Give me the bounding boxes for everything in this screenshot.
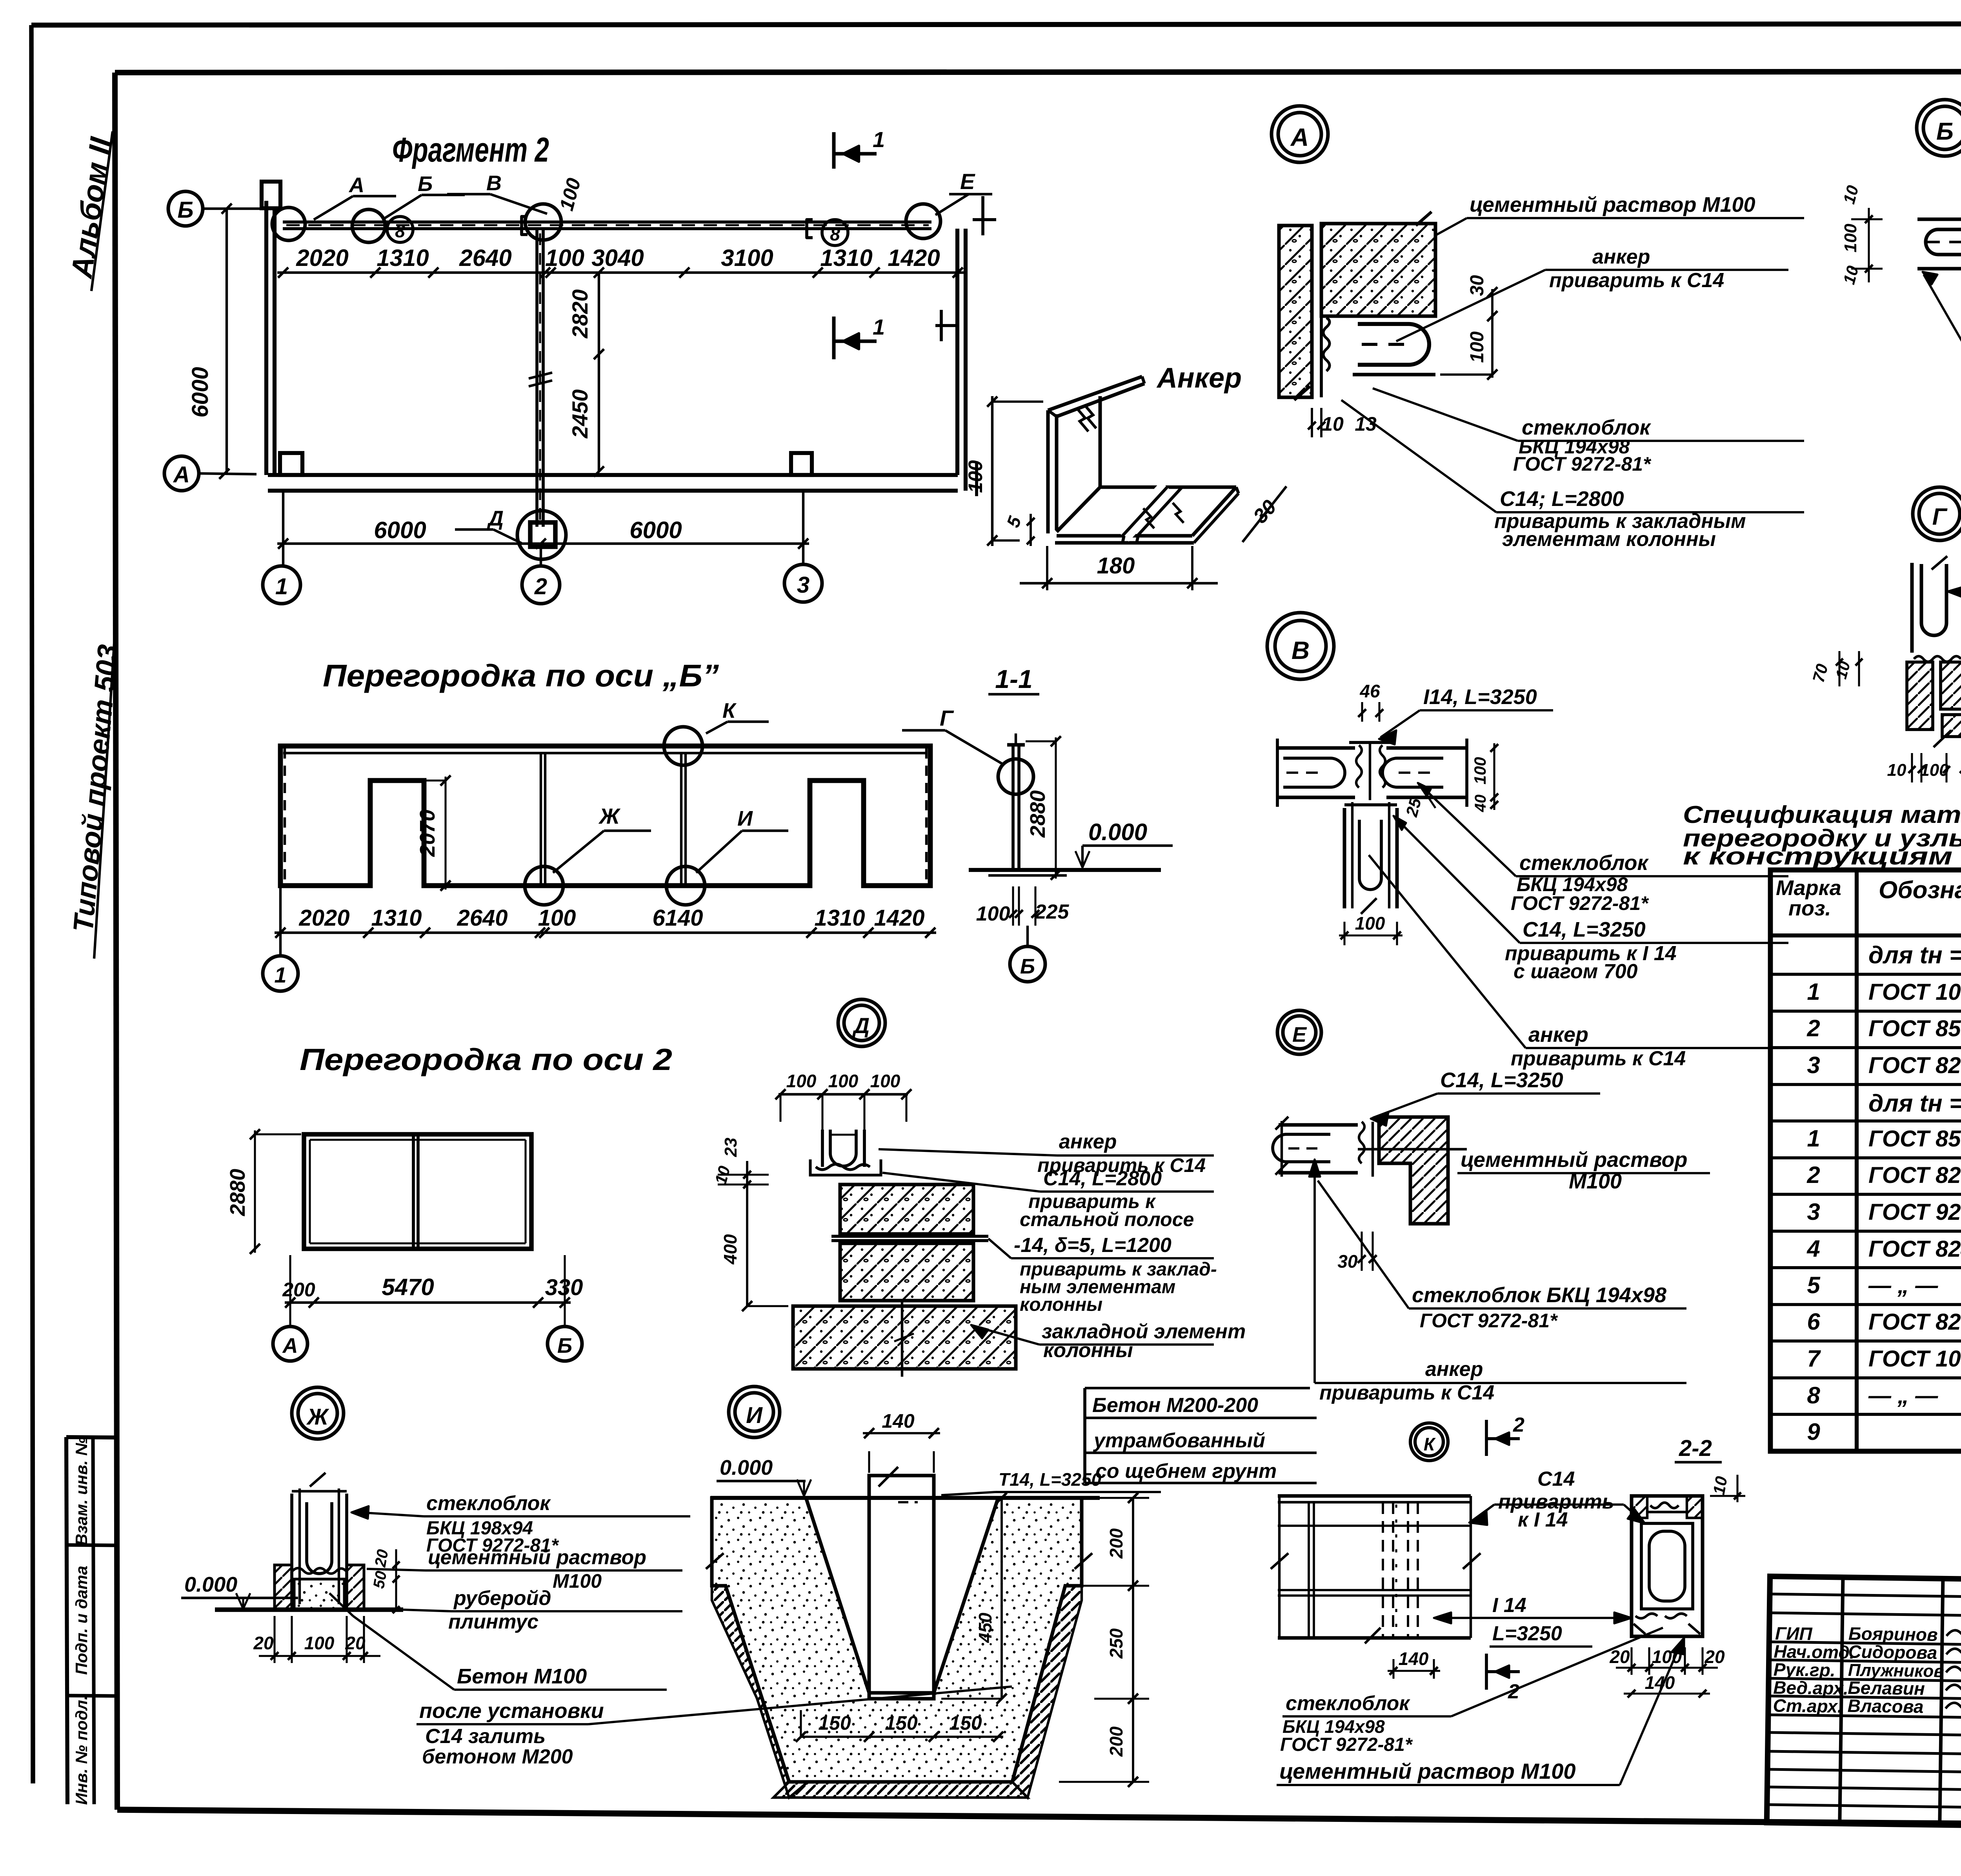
svg-text:2880: 2880 [1026, 790, 1050, 838]
svg-text:100: 100 [1471, 757, 1489, 784]
svg-text:анкер: анкер [1059, 1130, 1117, 1153]
column stub bottom-right [791, 453, 812, 475]
svg-text:колонны: колонны [1043, 1339, 1133, 1362]
detail Г lower block [1942, 715, 1961, 737]
vertical dim 2820/2450 [598, 273, 600, 471]
left margin stamp cells [66, 1437, 67, 1804]
В horizontal glass band right [1386, 746, 1467, 750]
detail mark circle Б on wall [352, 209, 385, 242]
detail circle Д (node) [838, 999, 885, 1046]
vertical dim 6000 (plan left) [226, 209, 228, 474]
оси2 dim 2880 [254, 1130, 256, 1253]
svg-text:ГОСТ 103-76*: ГОСТ 103-76* [1868, 979, 1961, 1005]
svg-text:3: 3 [797, 572, 810, 598]
svg-text:с шагом 700: с шагом 700 [1513, 960, 1637, 983]
svg-text:элементам колонны: элементам колонны [1502, 528, 1716, 551]
detail circle И on elevation [666, 866, 705, 905]
section mark 2 lower [1485, 1654, 1488, 1690]
svg-text:2450: 2450 [568, 389, 592, 439]
dims 100 225 (1-1) [1012, 886, 1014, 926]
оси2 axis circle Б [564, 1322, 566, 1326]
detail circle Ж on elevation [525, 866, 563, 905]
svg-text:М100: М100 [553, 1570, 602, 1592]
В band end ticks [1276, 739, 1279, 807]
detail circle Ж (node) [292, 1387, 344, 1439]
svg-text:2020: 2020 [298, 905, 349, 931]
К break marks [1271, 1553, 1288, 1569]
svg-text:2640: 2640 [457, 905, 508, 931]
svg-text:200: 200 [1106, 1528, 1126, 1559]
В vertical glass block below [1343, 808, 1346, 908]
svg-text:анкер: анкер [1592, 246, 1650, 268]
svg-text:Фрагмент 2: Фрагмент 2 [392, 130, 549, 169]
svg-text:8: 8 [830, 224, 840, 244]
svg-text:1: 1 [274, 963, 286, 987]
svg-text:Б: Б [418, 172, 433, 196]
detail Г glass block vertical profile [1910, 563, 1914, 653]
К dim 140 [1392, 1659, 1394, 1679]
title block group [1767, 1576, 1961, 1836]
section 1-1 partition [1011, 745, 1015, 870]
svg-text:30: 30 [1337, 1251, 1358, 1272]
svg-text:100: 100 [1355, 913, 1385, 933]
detail Г hatched door frame [1941, 662, 1961, 709]
svg-text:-14, δ=5, L=1200: -14, δ=5, L=1200 [1014, 1234, 1172, 1257]
svg-text:поз.: поз. [1788, 897, 1831, 920]
svg-text:400: 400 [720, 1234, 740, 1265]
column stub bottom-left [280, 453, 302, 475]
svg-text:анкер: анкер [1425, 1358, 1483, 1381]
svg-text:100: 100 [1467, 331, 1488, 363]
В bottom break [1361, 898, 1377, 914]
Е dim 30 [1361, 1232, 1363, 1271]
svg-text:100: 100 [538, 905, 576, 931]
Е glass block horizontal profile [1279, 1123, 1358, 1127]
svg-text:150: 150 [885, 1712, 918, 1734]
svg-text:со щебнем грунт: со щебнем грунт [1095, 1460, 1277, 1483]
anchor plate break marks [1077, 405, 1096, 431]
svg-text:50: 50 [370, 1570, 390, 1590]
svg-text:В: В [1292, 636, 1310, 664]
svg-text:6140: 6140 [652, 905, 703, 931]
svg-text:стеклоблок БКЦ 194х98: стеклоблок БКЦ 194х98 [1412, 1283, 1666, 1307]
svg-text:Спецификация материалов на: Спецификация материалов на стеклоблочную [1683, 801, 1961, 828]
svg-text:С14: С14 [1537, 1468, 1575, 1490]
detail circle Д with column [517, 511, 566, 559]
svg-text:колонны: колонны [1020, 1294, 1102, 1315]
svg-text:А: А [1290, 123, 1309, 151]
Е anchor joint [1359, 1122, 1373, 1177]
svg-text:1310: 1310 [377, 245, 429, 271]
svg-text:Б: Б [177, 197, 193, 223]
svg-text:ГОСТ 82-70*: ГОСТ 82-70* [1868, 1053, 1961, 1078]
dim 46 (В) [1361, 702, 1363, 722]
svg-text:6000: 6000 [187, 367, 213, 417]
В dims right 100 40 [1493, 743, 1495, 810]
section mark 1 (top) [832, 132, 836, 169]
dim 2880 (1-1) [1055, 737, 1057, 879]
axis Б leader [203, 207, 282, 210]
detail Г mortar squiggle [1914, 656, 1961, 662]
И dim 140 [868, 1451, 870, 1473]
svg-text:Г: Г [940, 706, 954, 730]
svg-text:5470: 5470 [382, 1274, 434, 1300]
svg-text:руберойд: руберойд [453, 1587, 551, 1610]
svg-text:Взам. инв. №: Взам. инв. № [72, 1437, 91, 1545]
elevation outline with door notches [280, 746, 930, 886]
Д column hatched upper [840, 1185, 973, 1234]
svg-text:ГОСТ 8239-72*: ГОСТ 8239-72* [1868, 1309, 1961, 1335]
svg-text:Марка: Марка [1776, 876, 1841, 900]
Д anchor channel [810, 1159, 881, 1175]
anchor break marks on plates [1143, 503, 1184, 528]
svg-text:БКЦ 194х98: БКЦ 194х98 [1282, 1716, 1385, 1737]
sheet outer border left [31, 25, 33, 1783]
detail A joint gap [1310, 226, 1313, 397]
detail mark circle В on wall [525, 204, 561, 240]
svg-text:плинтус: плинтус [448, 1610, 538, 1633]
detail mark circle Е on wall [906, 204, 940, 238]
svg-text:ГОСТ 8510-72*: ГОСТ 8510-72* [1868, 1016, 1961, 1041]
svg-text:140: 140 [882, 1410, 915, 1432]
Е hatched column [1379, 1117, 1448, 1224]
svg-text:8: 8 [1807, 1382, 1820, 1408]
svg-text:Б: Б [557, 1334, 572, 1357]
Д dims 100 100 100 [779, 1093, 908, 1095]
svg-text:Б: Б [1936, 118, 1954, 145]
svg-text:0.000: 0.000 [184, 1573, 237, 1596]
detail circle А [1272, 106, 1328, 162]
personnel column lines [1840, 1577, 1843, 1823]
svg-text:Инв. № подл.: Инв. № подл. [72, 1695, 91, 1805]
svg-text:1: 1 [1807, 1125, 1820, 1152]
anchor dim 180 [1046, 546, 1048, 590]
svg-text:— „ —: — „ — [1868, 1273, 1938, 1298]
svg-text:ГОСТ 9272-81*: ГОСТ 9272-81* [1513, 453, 1652, 475]
svg-text:ГОСТ 9272-81*: ГОСТ 9272-81* [1420, 1310, 1558, 1332]
svg-text:Г: Г [1932, 504, 1948, 530]
svg-text:5: 5 [1807, 1272, 1821, 1298]
svg-text:140: 140 [1645, 1672, 1675, 1693]
Ж glass block vertical [290, 1494, 293, 1604]
svg-text:250: 250 [1106, 1628, 1126, 1659]
svg-text:100: 100 [1652, 1647, 1682, 1667]
оси2 axis circle А [289, 1322, 291, 1326]
svg-text:2070: 2070 [416, 810, 439, 857]
svg-text:стеклоблок: стеклоблок [1286, 1692, 1410, 1715]
svg-text:приварить к С14: приварить к С14 [1549, 269, 1724, 292]
svg-text:Ж: Ж [598, 804, 621, 828]
svg-text:цементный раствор М100: цементный раствор М100 [1279, 1759, 1576, 1783]
svg-text:С14; L=2800: С14; L=2800 [1500, 487, 1624, 511]
И ground line [711, 1496, 1100, 1500]
svg-text:1420: 1420 [874, 905, 924, 931]
detail circle Б [1917, 100, 1961, 156]
svg-text:для tн =-20°, -30°С: для tн =-20°, -30°С [1868, 1090, 1961, 1117]
svg-text:цементный раствор: цементный раствор [1461, 1148, 1688, 1172]
svg-text:С14, L=3250: С14, L=3250 [1440, 1068, 1563, 1092]
svg-text:200: 200 [1106, 1726, 1126, 1757]
svg-text:цементный раствор: цементный раствор [428, 1546, 646, 1569]
svg-text:0.000: 0.000 [720, 1456, 773, 1479]
svg-text:3100: 3100 [721, 245, 773, 271]
svg-text:20: 20 [1609, 1647, 1630, 1667]
corner block top-left [262, 182, 280, 208]
elevation edge hatch left [284, 748, 286, 883]
svg-text:9: 9 [1807, 1419, 1820, 1445]
svg-text:ГОСТ 9272-81*: ГОСТ 9272-81* [1868, 1199, 1961, 1225]
svg-text:бетоном М200: бетоном М200 [422, 1745, 573, 1768]
Ж plinth right hatched [347, 1565, 364, 1610]
svg-text:100: 100 [304, 1633, 335, 1653]
svg-text:100: 100 [1920, 761, 1949, 780]
svg-text:3040: 3040 [591, 245, 644, 271]
svg-text:стеклоблок: стеклоблок [426, 1492, 551, 1515]
sheet outer border top [31, 24, 1961, 25]
Ж ground line [215, 1607, 403, 1612]
axis circle 1 (plan) [263, 566, 300, 604]
svg-text:ГОСТ 103-76*: ГОСТ 103-76* [1868, 1346, 1961, 1372]
svg-text:Д: Д [487, 507, 504, 530]
Д foundation hatched [793, 1306, 1016, 1369]
оси2 centre joint [412, 1134, 415, 1249]
svg-text:6000: 6000 [374, 517, 426, 543]
detail A column hatched [1321, 224, 1435, 316]
В I-beam joint [1356, 745, 1385, 788]
Ж mortar joint [293, 1568, 346, 1574]
svg-text:10: 10 [1887, 761, 1906, 780]
svg-text:утрамбованный: утрамбованный [1093, 1429, 1265, 1452]
svg-text:140: 140 [1399, 1649, 1429, 1669]
inner drawing frame left [115, 73, 117, 1810]
detail Г bottom break [1934, 730, 1951, 747]
inner drawing frame bottom [117, 1810, 1961, 1828]
svg-text:Ст.арх.: Ст.арх. [1773, 1695, 1843, 1716]
И dim 450 [1001, 1498, 1003, 1699]
svg-text:1: 1 [275, 574, 288, 599]
svg-text:150: 150 [818, 1712, 851, 1734]
section mark 2 upper [1485, 1420, 1488, 1456]
svg-text:ГОСТ 8240-72*: ГОСТ 8240-72* [1868, 1236, 1961, 1262]
detail Г hatched naличник left [1907, 662, 1933, 730]
svg-text:Б: Б [1020, 955, 1035, 978]
svg-text:100: 100 [976, 903, 1010, 925]
svg-text:100: 100 [964, 460, 986, 493]
svg-text:Е: Е [960, 169, 975, 194]
И dims right 200 250 200 [1132, 1498, 1134, 1782]
svg-text:450: 450 [975, 1612, 995, 1643]
anchor dim 30 [1242, 486, 1286, 542]
svg-text:40: 40 [1472, 795, 1489, 813]
svg-text:10: 10 [1710, 1475, 1731, 1496]
svg-text:23: 23 [721, 1138, 740, 1157]
elevation partition joint 1 [540, 753, 542, 886]
svg-text:7: 7 [1807, 1345, 1821, 1372]
detail Г bottom dims 10 100 10 [1911, 753, 1913, 782]
Ж plinth left hatched [275, 1565, 292, 1610]
svg-text:2: 2 [1806, 1162, 1820, 1188]
svg-text:10: 10 [1322, 413, 1344, 435]
svg-text:100: 100 [545, 245, 584, 271]
axis circle 2 (plan) [522, 566, 560, 604]
оси2 partition rectangle [304, 1134, 531, 1249]
detail A glass block profile [1353, 373, 1435, 377]
svg-text:стеклоблок: стеклоблок [1519, 851, 1649, 875]
detail circle Г [1913, 487, 1961, 540]
2-2 glass block vertical [1632, 1496, 1703, 1636]
signatures [1946, 1626, 1961, 1637]
svg-text:L=3250: L=3250 [1492, 1622, 1562, 1645]
svg-text:приварить к С14: приварить к С14 [1319, 1381, 1494, 1404]
svg-text:К: К [722, 699, 737, 722]
svg-text:А: А [282, 1334, 298, 1357]
2-2 dim 140 [1624, 1692, 1710, 1694]
detail A anchor squiggles [1323, 318, 1330, 371]
Д glass block profile top [821, 1130, 824, 1167]
оси2 bottom dim [285, 1301, 571, 1304]
section mark 1 (bottom) [832, 317, 836, 359]
axis circle А (plan) [164, 456, 199, 491]
node circle 8 right [822, 220, 848, 246]
И break marks [706, 1553, 724, 1569]
elevation axis circle 1 [279, 886, 282, 955]
svg-text:цементный раствор М100: цементный раствор М100 [1470, 193, 1755, 217]
Д foundation centreline break [901, 1301, 903, 1377]
detail A left hatched wall [1279, 226, 1312, 397]
axis А leader [199, 473, 256, 474]
dim 2070 (door height) [444, 777, 446, 890]
svg-text:приварить к С14: приварить к С14 [1511, 1047, 1686, 1070]
svg-text:100: 100 [828, 1071, 859, 1091]
dim 100 (detail A) [1491, 313, 1493, 378]
И dims 150 150 150 [801, 1736, 1003, 1738]
svg-text:— „ —: — „ — [1868, 1383, 1938, 1408]
svg-text:2820: 2820 [568, 289, 592, 339]
Е cement line [1358, 1148, 1467, 1150]
svg-text:2: 2 [534, 574, 547, 599]
bracket symbol right [807, 220, 813, 238]
svg-text:А: А [173, 462, 190, 488]
svg-text:стальной полосе: стальной полосе [1020, 1208, 1194, 1230]
svg-text:после установки: после установки [419, 1699, 604, 1723]
2-2 end caps hatched [1632, 1496, 1647, 1518]
svg-text:330: 330 [545, 1275, 583, 1300]
svg-text:1310: 1310 [820, 245, 872, 271]
К column dashed [1382, 1502, 1384, 1638]
svg-text:И: И [737, 807, 753, 830]
plan top glass-block partition along Б [283, 220, 931, 224]
svg-text:1: 1 [873, 127, 885, 152]
plan bottom wall [268, 473, 958, 477]
svg-text:I 14: I 14 [1492, 1594, 1526, 1617]
svg-text:Ж: Ж [306, 1404, 329, 1430]
svg-text:6000: 6000 [629, 517, 682, 543]
node circle 8 left [387, 217, 413, 242]
svg-text:Сидорова: Сидорова [1848, 1641, 1937, 1663]
anchor dim 100 [991, 396, 993, 546]
svg-text:Власова: Власова [1847, 1696, 1924, 1717]
right wall end tick [975, 461, 978, 496]
plan left wall [264, 201, 268, 475]
svg-text:4: 4 [1806, 1236, 1820, 1262]
И earth hatch right [1012, 1586, 1082, 1798]
section mark E (lower) [940, 310, 943, 341]
svg-text:1: 1 [1807, 979, 1820, 1005]
plan 6000-6000 dimension [277, 542, 809, 545]
elevation edge hatch right [925, 748, 928, 883]
svg-text:2640: 2640 [459, 245, 511, 271]
svg-text:20: 20 [1704, 1647, 1725, 1667]
svg-text:Бетон М200-200: Бетон М200-200 [1092, 1394, 1258, 1417]
svg-text:Бетон М100: Бетон М100 [457, 1665, 587, 1688]
spec col line x=4734 [1855, 870, 1859, 1451]
anchor vertical plate [1046, 410, 1050, 533]
svg-text:Обозначение: Обозначение [1879, 877, 1961, 904]
Ж dims 20 100 20 [273, 1616, 275, 1663]
svg-text:I14, L=3250: I14, L=3250 [1423, 685, 1537, 709]
elevation axis circle Б [1026, 926, 1029, 945]
svg-text:46: 46 [1359, 681, 1380, 701]
spec table header row line [1770, 933, 1961, 937]
Ж concrete base speckled [294, 1579, 344, 1610]
svg-text:1310: 1310 [814, 905, 865, 931]
И earth hatch left [712, 1586, 808, 1798]
label I14 L=3250 (К) [1434, 1617, 1632, 1619]
В horizontal glass band left [1277, 746, 1355, 750]
svg-text:ГОСТ 8510-72*: ГОСТ 8510-72* [1868, 1126, 1961, 1152]
svg-text:К: К [1424, 1434, 1436, 1454]
detail circle В [1267, 613, 1334, 679]
inner drawing frame top [115, 71, 1961, 73]
Д plate -14 [831, 1235, 988, 1238]
svg-text:Д: Д [852, 1013, 870, 1038]
Д column hatched lower [840, 1243, 973, 1301]
svg-text:А: А [348, 173, 364, 197]
dim 30 (detail A) [1491, 289, 1493, 319]
svg-text:С14 залить: С14 залить [425, 1725, 546, 1748]
svg-text:1: 1 [873, 315, 885, 339]
svg-text:2880: 2880 [226, 1169, 249, 1216]
bracket symbol left of В [522, 217, 528, 235]
svg-text:к конструкциям здания ( узл: к конструкциям здания ( узлы 5,6) [1683, 843, 1961, 870]
plan horizontal dimension line [277, 271, 964, 274]
svg-text:100: 100 [1841, 224, 1860, 253]
svg-text:В: В [486, 171, 502, 195]
section 1-1 detail circle Г [998, 759, 1033, 794]
detail Г top break mark [1932, 556, 1947, 570]
svg-text:Перегородка по оси 2: Перегородка по оси 2 [300, 1042, 672, 1077]
detail circle И (node) [729, 1387, 780, 1437]
svg-text:Е: Е [1292, 1023, 1307, 1046]
svg-text:И: И [746, 1403, 763, 1428]
И concrete body speckled [712, 1498, 1082, 1782]
detail Б glass block horizontal profile [1917, 218, 1961, 221]
svg-text:анкер: анкер [1528, 1023, 1588, 1046]
svg-text:для tн = -40°С: для tн = -40°С [1868, 942, 1961, 969]
К wall fragment [1278, 1494, 1471, 1498]
svg-text:ГОСТ 9272-81*: ГОСТ 9272-81* [1280, 1734, 1413, 1755]
svg-text:1420: 1420 [888, 245, 940, 271]
svg-text:С14, L=3250: С14, L=3250 [1523, 918, 1646, 941]
svg-text:150: 150 [949, 1712, 982, 1734]
section mark E (left) [981, 196, 984, 235]
plan right wall [955, 229, 959, 475]
svg-text:8: 8 [395, 221, 405, 241]
detail circle К (node) [1410, 1423, 1448, 1461]
axis circle Б (plan) [168, 191, 203, 226]
svg-text:200: 200 [282, 1279, 315, 1301]
svg-text:Перегородка по оси „Б”: Перегородка по оси „Б” [323, 658, 719, 693]
